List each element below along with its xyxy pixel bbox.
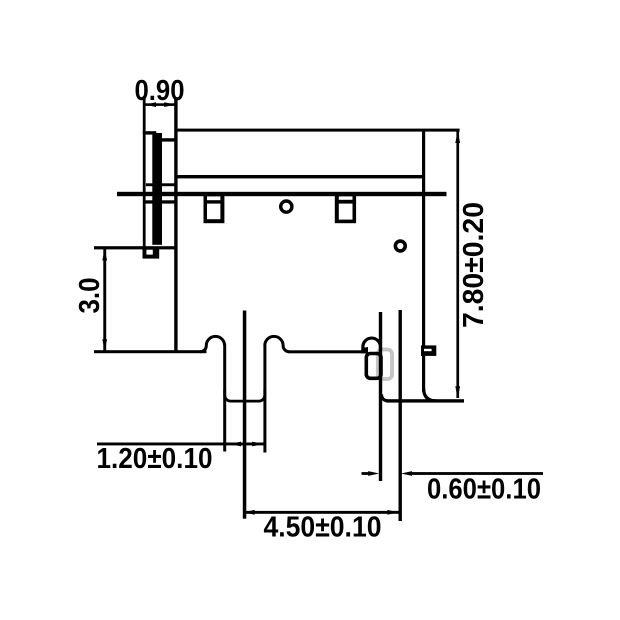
body top edge	[175, 129, 460, 132]
dim 3.0 arrow down	[102, 339, 107, 350]
left leg center line	[243, 311, 247, 519]
dim 0.60 arrow left	[368, 471, 379, 476]
slot left wall	[223, 345, 226, 452]
flange thick bar	[152, 133, 162, 245]
mid bottom line	[289, 350, 364, 353]
extension line y248	[94, 246, 176, 249]
right leg left edge	[379, 312, 382, 481]
flange foot	[143, 247, 160, 258]
flange left extension line	[143, 96, 146, 248]
black latch detail	[366, 354, 381, 379]
dim 7.80 arrow up	[455, 131, 460, 143]
tab 2	[335, 192, 356, 223]
svg-text:0.60±0.10: 0.60±0.10	[427, 474, 541, 506]
slot U bottom	[225, 389, 265, 401]
dim 0.60 right line	[412, 472, 543, 475]
dim 3.0 line	[103, 249, 106, 351]
dim 0.60 left line	[362, 472, 372, 475]
bottom line to leg fillet	[382, 395, 389, 401]
dim 0.90 line	[145, 103, 176, 106]
flange rim line lower	[143, 200, 177, 203]
right bump profile	[265, 336, 290, 351]
body bottom right line	[386, 399, 464, 402]
dim 3.0 arrow up	[102, 249, 107, 260]
body left edge	[174, 99, 177, 353]
svg-text:7.80±0.20: 7.80±0.20	[458, 202, 490, 328]
right leg bump base blob	[361, 347, 368, 354]
flange top cap	[143, 131, 157, 134]
right leg bump	[363, 338, 381, 352]
hole circle 2	[395, 241, 405, 251]
slot right wall	[263, 345, 266, 453]
svg-text:4.50±0.10: 4.50±0.10	[264, 512, 382, 544]
dim 1.20 arrow left	[230, 442, 242, 447]
flange step cap	[156, 138, 176, 141]
main thick board line	[117, 192, 447, 196]
dim 0.60 arrow right	[401, 471, 412, 476]
right leg right edge	[399, 310, 402, 521]
dim 7.80 line	[456, 131, 459, 398]
body inner line	[176, 175, 424, 178]
dim 1.20 line	[97, 443, 264, 446]
bottom left line	[94, 350, 207, 353]
dim 0.90 arrow right	[164, 102, 175, 107]
svg-text:3.0: 3.0	[74, 278, 106, 314]
right side small tab	[421, 345, 436, 356]
dim 7.80 arrow down	[455, 386, 460, 398]
body bottom right corner	[424, 388, 436, 401]
dim 1.20 arrow right	[252, 442, 263, 447]
dim 4.50 arrow right	[387, 510, 398, 515]
hole circle 1	[281, 201, 292, 212]
flange rim line upper	[146, 183, 175, 186]
dim 0.90 arrow left	[145, 102, 156, 107]
dim 4.50 line	[243, 511, 398, 514]
svg-text:0.90: 0.90	[135, 75, 185, 107]
svg-text:1.20±0.10: 1.20±0.10	[97, 443, 213, 475]
body right edge	[422, 130, 425, 392]
flange foot notch	[146, 250, 152, 255]
dim 4.50 arrow left	[244, 510, 255, 515]
gray latch detail (behind)	[378, 350, 392, 380]
left bump profile	[200, 336, 225, 351]
tab 1	[204, 192, 225, 223]
